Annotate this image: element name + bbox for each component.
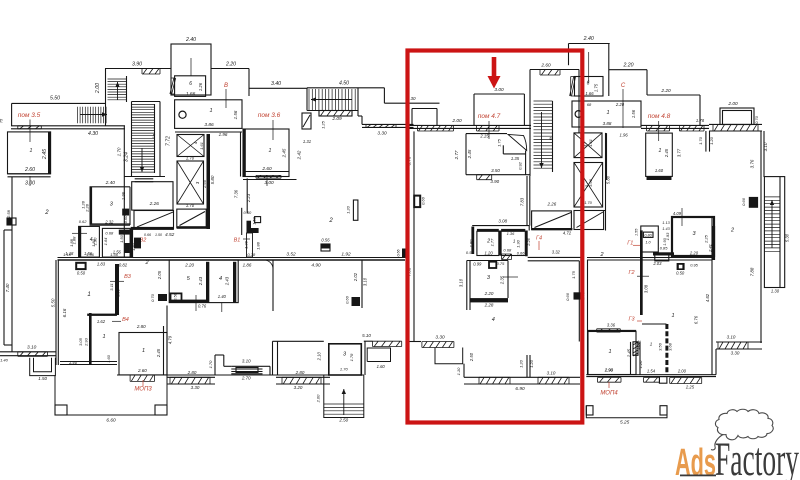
svg-text:1.35: 1.35	[511, 156, 520, 161]
svg-text:2.45: 2.45	[156, 348, 161, 358]
stair right arrow	[80, 114, 107, 116]
svg-text:1.31: 1.31	[303, 139, 311, 144]
stair A down arrow	[141, 148, 143, 172]
svg-text:1.75: 1.75	[497, 138, 502, 147]
corridor wall x167 lower	[166, 306, 168, 376]
svg-text:2.60: 2.60	[540, 63, 551, 69]
svg-text:3.77: 3.77	[676, 148, 681, 157]
tower box 2.40 #2	[569, 43, 610, 45]
svg-text:1: 1	[671, 313, 674, 319]
svg-text:2.20: 2.20	[615, 102, 625, 107]
svg-text:3.10: 3.10	[547, 371, 556, 376]
svg-text:0.66: 0.66	[144, 233, 151, 237]
svg-text:1.36: 1.36	[507, 231, 516, 236]
svg-text:2.77: 2.77	[454, 150, 459, 160]
svg-text:0.68: 0.68	[503, 248, 512, 253]
svg-text:1.40: 1.40	[0, 358, 9, 363]
svg-text:1.50: 1.50	[155, 233, 162, 237]
svg-text:Factory: Factory	[715, 433, 799, 480]
svg-text:1.92: 1.92	[341, 252, 351, 258]
svg-text:2.25: 2.25	[685, 385, 695, 390]
svg-text:1.13: 1.13	[662, 221, 670, 225]
svg-text:6.60: 6.60	[106, 418, 116, 424]
svg-text:2.70: 2.70	[241, 375, 251, 380]
svg-text:0.50: 0.50	[77, 271, 86, 276]
lower stair flight treads	[78, 107, 107, 124]
vent window between rooms	[502, 254, 512, 260]
svg-text:2.93: 2.93	[84, 337, 89, 347]
svg-text:2.00: 2.00	[316, 394, 321, 404]
svg-text:1.61: 1.61	[199, 142, 204, 150]
wall y88 stair top	[307, 87, 384, 89]
svg-text:2.45: 2.45	[664, 148, 669, 158]
svg-text:2.60: 2.60	[261, 166, 272, 172]
svg-text:1.88: 1.88	[69, 238, 74, 247]
left wall G x587	[587, 260, 589, 375]
svg-text:1.30: 1.30	[771, 289, 780, 294]
svg-text:7.72: 7.72	[166, 136, 172, 146]
door wedge room1	[508, 134, 527, 150]
svg-text:3.88: 3.88	[603, 121, 612, 126]
svg-text:2.42: 2.42	[297, 150, 302, 160]
svg-text:3.10: 3.10	[363, 277, 368, 286]
thick wall x641	[640, 230, 643, 315]
main wall band left of pom4.7	[409, 124, 462, 126]
svg-text:2.20: 2.20	[184, 263, 194, 268]
thick wall room3 bottom	[470, 298, 508, 302]
room 6 box	[175, 76, 206, 97]
vent shaft hatched	[633, 342, 638, 356]
svg-text:3.99: 3.99	[116, 288, 121, 297]
svg-text:2: 2	[730, 228, 734, 234]
stair S2 treads	[534, 101, 553, 168]
wall top y68.5	[105, 68, 171, 70]
svg-text:2.20: 2.20	[689, 251, 699, 256]
svg-text:1.70: 1.70	[186, 156, 195, 161]
svg-text:1.20: 1.20	[529, 359, 534, 368]
svg-text:2: 2	[144, 260, 148, 266]
svg-text:пом 3.6: пом 3.6	[258, 112, 281, 119]
svg-text:2.66: 2.66	[202, 179, 207, 189]
thick left wall rooms	[471, 227, 474, 254]
elevator 2 left	[177, 161, 204, 204]
svg-text:3.10: 3.10	[727, 335, 736, 340]
porch step left	[30, 358, 56, 376]
svg-text:3.32: 3.32	[552, 250, 561, 255]
svg-text:1.20: 1.20	[709, 136, 714, 145]
window pom3.5 top	[18, 126, 42, 129]
svg-text:2.00: 2.00	[677, 369, 687, 374]
svg-text:3.30: 3.30	[731, 351, 740, 356]
svg-text:5.30: 5.30	[785, 233, 790, 242]
svg-text:В: В	[224, 83, 228, 89]
svg-text:2.26: 2.26	[547, 202, 557, 207]
svg-text:1.61: 1.61	[588, 139, 593, 147]
svg-text:4: 4	[219, 276, 222, 282]
room2 G thick bottom	[647, 176, 672, 180]
wall top-left 5.50	[12, 102, 105, 104]
left outer wall lower	[11, 177, 13, 352]
svg-text:1.64: 1.64	[103, 237, 108, 246]
corridor wall x124	[123, 126, 125, 257]
svg-text:2.28: 2.28	[484, 303, 494, 308]
svg-text:4.90: 4.90	[311, 263, 321, 269]
wall top G y257.5	[587, 257, 712, 259]
wall x527-529 below stair	[526, 176, 528, 226]
svg-text:2.05: 2.05	[157, 270, 162, 280]
svg-text:2.50: 2.50	[338, 418, 348, 423]
room 1 box upper	[175, 100, 242, 129]
svg-text:2.28: 2.28	[85, 203, 90, 213]
svg-text:1: 1	[142, 348, 145, 354]
svg-text:30: 30	[410, 96, 416, 101]
svg-text:2: 2	[44, 210, 49, 216]
svg-text:2.09: 2.09	[331, 116, 342, 122]
bottom wall G	[586, 374, 716, 376]
svg-text:3.76: 3.76	[749, 159, 754, 168]
svg-text:0.62: 0.62	[79, 219, 88, 224]
svg-text:1.80: 1.80	[91, 238, 96, 247]
platform center	[214, 355, 216, 375]
svg-text:1: 1	[606, 110, 609, 116]
svg-text:0.66: 0.66	[345, 295, 350, 304]
svg-text:2.20: 2.20	[225, 62, 236, 68]
svg-text:1.70: 1.70	[116, 147, 121, 156]
svg-text:Ads: Ads	[675, 442, 716, 480]
thick wall segment y252	[653, 252, 674, 255]
wall pair x273	[277, 341, 279, 375]
leader pom3.5	[29, 120, 31, 143]
pom4.7 upper box	[473, 94, 475, 125]
thick wall x115	[115, 264, 119, 315]
svg-text:1.66: 1.66	[585, 91, 594, 96]
svg-text:3.36: 3.36	[607, 323, 616, 328]
svg-text:2.20: 2.20	[660, 88, 671, 94]
window below room1	[477, 175, 492, 180]
svg-text:3.40: 3.40	[271, 81, 281, 87]
windows below pom4.7 box	[462, 124, 531, 126]
svg-text:3.30: 3.30	[191, 385, 200, 390]
white box door G	[659, 377, 667, 384]
elevator 1 left	[177, 135, 204, 157]
bottom-left red box walls	[409, 341, 421, 343]
svg-text:0.58: 0.58	[174, 292, 178, 300]
wall x249 down	[248, 69, 250, 97]
wall x605 right of elevators	[605, 133, 607, 231]
svg-text:1: 1	[102, 334, 105, 340]
watermark smoke	[711, 435, 723, 450]
stair B lower band	[319, 111, 352, 117]
right stair balcony	[764, 177, 784, 288]
svg-text:2.26: 2.26	[149, 201, 160, 207]
svg-text:В3: В3	[124, 274, 132, 280]
svg-text:1.60: 1.60	[377, 364, 386, 369]
stub wall x707	[705, 131, 707, 152]
svg-text:6.90: 6.90	[515, 386, 525, 392]
svg-text:1.56: 1.56	[631, 109, 636, 118]
door niche 0.58	[171, 293, 182, 302]
svg-text:1.30: 1.30	[516, 239, 521, 248]
svg-text:1.80: 1.80	[469, 239, 474, 248]
svg-text:2.23: 2.23	[246, 193, 251, 203]
black box below B2	[134, 238, 141, 249]
svg-text:2.25: 2.25	[704, 234, 709, 244]
svg-text:2.00: 2.00	[451, 118, 462, 124]
svg-text:2.43: 2.43	[224, 276, 229, 286]
svg-text:0.70: 0.70	[754, 115, 759, 124]
balcony top right	[720, 108, 754, 125]
small box left wall	[7, 218, 16, 225]
svg-text:2: 2	[328, 218, 333, 224]
svg-text:3.56: 3.56	[658, 342, 663, 351]
windows right G	[670, 378, 702, 384]
svg-text:3.11: 3.11	[109, 283, 114, 291]
svg-text:1.36: 1.36	[243, 240, 248, 249]
svg-text:0.66: 0.66	[517, 251, 526, 256]
svg-text:1: 1	[209, 108, 212, 114]
svg-text:0.66: 0.66	[741, 197, 746, 206]
svg-text:1.56: 1.56	[86, 252, 95, 257]
corridor line y210	[579, 210, 606, 212]
svg-text:1.78: 1.78	[349, 353, 354, 362]
svg-text:3.30: 3.30	[435, 335, 445, 341]
svg-text:0.75: 0.75	[497, 261, 506, 266]
svg-text:1: 1	[658, 148, 661, 154]
porch MOP3	[55, 375, 167, 415]
svg-text:3.08: 3.08	[644, 284, 649, 293]
ramp shape 2	[177, 209, 206, 228]
room 6b	[575, 77, 604, 97]
svg-text:3.00: 3.00	[264, 180, 274, 186]
wall vertical x105	[105, 69, 107, 127]
svg-text:2.45: 2.45	[467, 149, 472, 159]
svg-text:1.83: 1.83	[97, 262, 106, 267]
svg-text:0.92: 0.92	[518, 161, 523, 170]
svg-text:1.56: 1.56	[233, 110, 238, 119]
svg-text:4.50: 4.50	[339, 81, 349, 87]
bottom wall red box	[463, 364, 465, 378]
svg-text:0.80: 0.80	[644, 233, 652, 237]
elevator lobby wall	[175, 131, 242, 133]
svg-text:3.86: 3.86	[204, 122, 214, 128]
svg-text:Г2: Г2	[628, 270, 634, 276]
svg-text:1.50: 1.50	[38, 376, 47, 381]
svg-text:1.50: 1.50	[119, 234, 124, 243]
svg-text:2.35: 2.35	[500, 275, 505, 285]
svg-text:7.40: 7.40	[5, 283, 10, 292]
svg-text:2.00: 2.00	[727, 101, 738, 107]
vent shaft column G1	[641, 226, 659, 252]
svg-text:6.16: 6.16	[62, 308, 67, 317]
svg-text:6: 6	[587, 81, 590, 87]
red arrow	[492, 57, 497, 77]
svg-text:1.62: 1.62	[97, 319, 106, 324]
svg-text:МОП4: МОП4	[600, 391, 618, 397]
windows bottom G	[598, 378, 622, 383]
svg-text:0.66: 0.66	[565, 292, 570, 301]
room small right of 4	[102, 228, 130, 257]
svg-text:2.90: 2.90	[604, 368, 614, 373]
svg-text:1.70: 1.70	[340, 367, 349, 372]
corridor wall y257 pom4.7	[528, 256, 582, 258]
window band right top	[709, 123, 762, 125]
black box 0.56	[321, 244, 330, 249]
svg-text:1.54: 1.54	[647, 369, 656, 374]
room3 right wall	[129, 187, 131, 225]
wall x712 right G	[711, 217, 713, 375]
svg-text:2.20: 2.20	[622, 63, 633, 69]
stair A landing wall	[135, 178, 154, 180]
room 1f G bottom-left	[588, 332, 636, 375]
MOP3 rooms 5 and 4	[169, 260, 238, 303]
svg-text:0.66: 0.66	[396, 250, 400, 257]
svg-text:2.00: 2.00	[95, 83, 101, 94]
svg-text:4.79: 4.79	[167, 335, 172, 344]
windows bottom MOP3	[167, 376, 215, 378]
svg-text:0.76: 0.76	[198, 304, 207, 309]
left outer wall upper	[11, 103, 13, 125]
svg-text:2.03: 2.03	[652, 261, 662, 266]
wall x240 vertical	[240, 132, 242, 177]
svg-text:4.09: 4.09	[673, 211, 682, 216]
svg-text:Г3: Г3	[628, 317, 635, 323]
svg-text:2.80: 2.80	[136, 324, 146, 329]
svg-text:3.52: 3.52	[286, 252, 296, 258]
wall y88 between	[249, 87, 307, 89]
svg-text:0.51: 0.51	[466, 250, 474, 255]
black box 095	[677, 263, 685, 270]
svg-text:3.00: 3.00	[25, 181, 35, 187]
wall x716 step	[715, 349, 717, 375]
svg-text:4: 4	[492, 317, 495, 323]
wall bottom stair A	[124, 176, 165, 178]
room 3e	[672, 217, 714, 256]
corridor band y126	[11, 125, 125, 127]
svg-text:5.50: 5.50	[50, 96, 60, 102]
pom 3.6 room 1	[243, 129, 246, 177]
wall y69.7 right	[609, 69, 647, 71]
svg-text:1.77: 1.77	[489, 238, 494, 247]
thick wall x130	[130, 228, 133, 257]
svg-text:2.45: 2.45	[42, 149, 48, 160]
svg-text:2.60: 2.60	[24, 167, 35, 173]
svg-text:3.08: 3.08	[498, 219, 507, 224]
lobby box below stair A	[132, 182, 173, 210]
svg-text:3.10: 3.10	[763, 142, 768, 151]
bottom wall MOP3 y375	[117, 374, 364, 376]
small rooms bottom pom4.7	[477, 229, 499, 231]
wall x578 inner right	[578, 261, 580, 342]
svg-text:МОП3: МОП3	[134, 387, 152, 393]
porch G	[586, 406, 667, 418]
wall top MOP3 y257.5	[58, 257, 406, 259]
stair B treads	[309, 89, 355, 111]
black box 0.66 right	[574, 292, 581, 299]
svg-text:Г1: Г1	[627, 241, 633, 247]
thick wall x666 dashed	[665, 324, 668, 375]
svg-text:1.20: 1.20	[485, 250, 494, 255]
svg-text:1.75: 1.75	[571, 270, 576, 279]
windows bottom center	[276, 376, 330, 378]
stair shaft S2	[530, 69, 579, 71]
svg-text:1.55: 1.55	[634, 228, 638, 236]
svg-text:0.60: 0.60	[124, 215, 128, 223]
room 3 bottom right	[329, 344, 362, 375]
svg-text:5: 5	[152, 134, 155, 140]
ramp right of stair	[532, 211, 572, 230]
svg-text:1: 1	[608, 349, 611, 355]
svg-text:1.18: 1.18	[63, 252, 72, 257]
svg-text:1: 1	[87, 292, 90, 298]
svg-text:2.02: 2.02	[353, 272, 358, 282]
wall y341.3 center	[273, 340, 324, 342]
door arc MOP3	[264, 260, 273, 269]
svg-text:3.50: 3.50	[491, 168, 500, 173]
svg-text:0.82: 0.82	[119, 263, 128, 268]
room 1b	[572, 101, 641, 127]
svg-text:0.68: 0.68	[105, 231, 114, 236]
wall y324	[642, 323, 666, 325]
svg-text:5.50: 5.50	[51, 298, 56, 307]
svg-text:пом 4.8: пом 4.8	[648, 113, 671, 120]
svg-text:68: 68	[587, 102, 592, 107]
wall y103 to red box	[384, 102, 439, 104]
svg-text:5.80: 5.80	[210, 175, 215, 184]
window top x142	[142, 69, 160, 75]
svg-text:0.70: 0.70	[150, 293, 155, 302]
svg-text:3.68: 3.68	[668, 342, 673, 351]
svg-text:0.99: 0.99	[473, 262, 482, 267]
wall y68.5 right of tower	[211, 68, 249, 70]
svg-text:1.75: 1.75	[594, 83, 599, 92]
svg-text:Г4: Г4	[536, 236, 542, 242]
svg-text:1.95: 1.95	[121, 191, 126, 200]
ramp shape 1	[134, 211, 174, 229]
svg-text:3.05: 3.05	[78, 337, 83, 346]
svg-text:3.10: 3.10	[27, 345, 37, 351]
svg-text:2: 2	[599, 252, 603, 258]
svg-text:6.76: 6.76	[694, 315, 699, 324]
svg-text:1.70: 1.70	[208, 360, 213, 369]
wall x607 down	[606, 133, 608, 180]
svg-text:1: 1	[30, 148, 33, 154]
svg-text:1.96: 1.96	[620, 133, 629, 138]
stair up arrow	[117, 82, 119, 100]
svg-text:6: 6	[189, 81, 192, 87]
jog stairB to band	[358, 115, 362, 117]
svg-text:1.53: 1.53	[251, 216, 256, 225]
svg-text:0.50: 0.50	[676, 271, 685, 276]
room1 pom4.7	[465, 134, 467, 175]
svg-text:0.50: 0.50	[244, 210, 253, 215]
inner room1 bottom	[89, 313, 92, 365]
svg-text:0.56: 0.56	[321, 238, 330, 243]
step right of room3	[364, 340, 373, 342]
watermark Ads underline	[680, 475, 716, 477]
svg-text:7.83: 7.83	[520, 197, 525, 206]
svg-text:3.10: 3.10	[242, 359, 251, 364]
svg-text:1.60: 1.60	[655, 168, 664, 173]
room1 pom3.5 box	[8, 132, 51, 174]
svg-text:2.15: 2.15	[479, 134, 489, 139]
wall y330 G	[587, 329, 636, 331]
svg-text:0.66: 0.66	[421, 196, 426, 205]
svg-text:2.10: 2.10	[317, 352, 322, 362]
svg-text:2.26: 2.26	[527, 237, 531, 246]
svg-text:1.10: 1.10	[456, 367, 461, 376]
svg-text:2.80: 2.80	[295, 370, 305, 375]
window band right bottom	[716, 341, 762, 343]
